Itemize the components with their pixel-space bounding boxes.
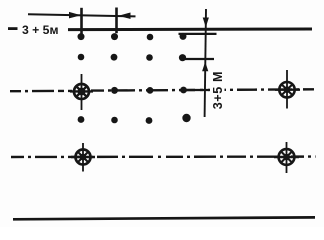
short dash left of label (8, 27, 18, 30)
borehole dots row 1 (78, 33, 187, 40)
extension tick right (column 2) (115, 8, 118, 34)
arrowhead pointing right at left tick (69, 12, 81, 19)
bottom boundary line (13, 217, 315, 219)
survey point symbol lower-right (274, 142, 299, 173)
borehole dots row 2 (78, 54, 186, 62)
middle axis dash-dot line right part (91, 89, 314, 90)
label 3+5 m vertical (211, 71, 225, 109)
svg-text:3 + 5м: 3 + 5м (22, 23, 58, 37)
top dimension line (28, 14, 136, 16)
borehole dots row 4 (78, 114, 191, 124)
vertical dim tick row 2 (182, 58, 214, 60)
arrowhead pointing down at top (203, 18, 209, 28)
vertical dim tick row 1 (179, 33, 217, 35)
borehole dots row 3 (on axis) (111, 87, 187, 94)
extension tick left (column 1) (80, 8, 83, 34)
vertical dim tick row 3 (184, 89, 210, 91)
arrowhead pointing up below second tick (202, 62, 208, 72)
label 3 + 5m horizontal (22, 23, 58, 37)
survey point symbol middle-right (275, 70, 300, 109)
survey point symbol middle-left (70, 74, 93, 110)
middle axis dash-dot line left part (10, 90, 72, 93)
top boundary line (68, 28, 312, 32)
lower axis dash-dot line (11, 155, 316, 158)
survey point symbol lower-left (71, 143, 95, 172)
vertical dimension line (205, 9, 206, 117)
white gap behind vertical label (210, 84, 225, 97)
svg-text:3+5 М: 3+5 М (211, 71, 225, 109)
arrowhead pointing left at right tick (119, 13, 131, 20)
